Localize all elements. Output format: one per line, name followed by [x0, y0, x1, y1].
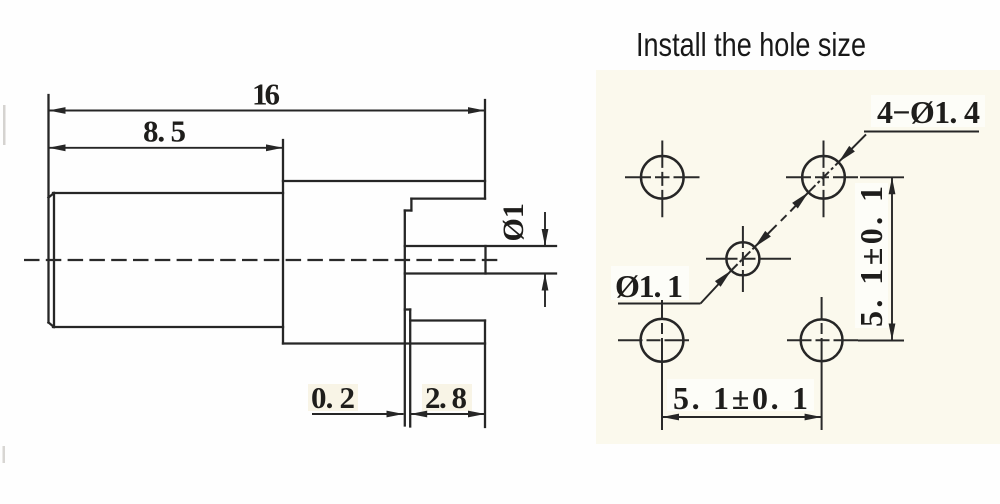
arrow at center hole upper-right: [755, 225, 777, 247]
svg-text:8. 5: 8. 5: [143, 114, 186, 149]
leader 4-O1.4 arrow: [839, 132, 979, 163]
dimension 16 line: [49, 107, 486, 114]
dim 2.8 right arrow: [468, 411, 485, 418]
svg-text:5. 1±0. 1: 5. 1±0. 1: [673, 380, 808, 416]
dim O1 upper arrow: [542, 229, 549, 246]
body right edge + extension line: [484, 100, 486, 199]
hole center circle: [726, 242, 759, 275]
svg-text:Install the hole size: Install the hole size: [636, 26, 866, 63]
dim 2.8 left arrow: [410, 411, 427, 418]
dim 16 left arrow: [49, 107, 66, 114]
leader 4-O1.4 underline: [864, 131, 979, 133]
dim 8.5 left arrow: [49, 144, 66, 151]
diagonal through center hole: [731, 247, 754, 270]
diagonal through top-right hole: [808, 162, 838, 192]
dimension 8.5 line: [49, 144, 284, 151]
bottom dim 5.1 line: [662, 414, 822, 421]
bottom dim right arrow: [805, 414, 822, 421]
white patch behind right 5.1 text: [855, 183, 888, 328]
leader O1.1 arrow: [715, 271, 731, 287]
right dim 5.1 line: [891, 177, 893, 340]
barrel bottom edge: [53, 326, 283, 328]
white patch behind O1.1: [611, 266, 689, 300]
leader O1.1 diagonal: [701, 271, 732, 304]
right dim top arrow: [889, 177, 896, 194]
hole top-left circle: [641, 156, 684, 199]
hole bottom-left circle: [641, 319, 684, 362]
barrel top chamfer: [49, 193, 55, 198]
svg-text:2. 8: 2. 8: [425, 380, 467, 415]
white patch behind bottom 5.1 text: [667, 379, 814, 411]
leader O1.1 underline: [618, 271, 731, 304]
flange top edge: [410, 319, 485, 321]
hole bottom-left crosshair: [618, 297, 689, 430]
arrow at top-right hole lower-left: [790, 192, 808, 211]
svg-text:5. 1±0. 1: 5. 1±0. 1: [853, 186, 889, 327]
barrel left inner edge: [53, 193, 55, 327]
notch step horizontal lower: [405, 209, 412, 211]
dim 8.5 right arrow: [266, 144, 283, 151]
body top edge: [283, 180, 485, 182]
right dim extension top: [858, 177, 904, 340]
svg-text:Ø1: Ø1: [497, 203, 530, 241]
leg left line: [404, 211, 406, 426]
notch step vertical: [410, 199, 412, 211]
right dim bottom arrow: [889, 324, 896, 341]
dimension O1 vertical line: [542, 212, 549, 307]
flange right edge: [484, 321, 486, 428]
cream patch behind 2.8: [422, 384, 472, 411]
bottom dim left arrow: [662, 414, 679, 421]
svg-text:4−Ø1. 4: 4−Ø1. 4: [877, 94, 980, 130]
notch step horizontal upper: [411, 197, 485, 199]
stray crop artifact left edge bottom: [3, 446, 6, 463]
stray crop artifact left edge top: [3, 105, 6, 145]
leg right line: [409, 310, 411, 427]
svg-text:Ø1. 1: Ø1. 1: [615, 268, 683, 304]
leg top hook: [405, 308, 410, 310]
right panel cream background: [596, 70, 1000, 444]
svg-text:16: 16: [252, 77, 280, 112]
hole top-right crosshair: [786, 141, 858, 218]
pin bottom edge: [405, 272, 556, 274]
dimension 0.2 line: [312, 411, 404, 418]
pin inner vertical: [484, 246, 486, 274]
hole bottom-right crosshair: [787, 297, 858, 430]
barrel top edge: [53, 192, 283, 194]
hole top-left crosshair: [625, 141, 700, 218]
dim O1 lower arrow: [542, 274, 549, 291]
cream patch behind 0.2: [308, 384, 358, 411]
barrel bottom chamfer: [49, 323, 55, 328]
hole top-right circle: [802, 156, 845, 199]
barrel left outer edge + extension line: [47, 95, 49, 323]
hole bottom-right circle: [801, 319, 843, 361]
centerline: [24, 259, 503, 261]
step vertical + extension line: [282, 140, 284, 344]
dim 16 right arrow: [468, 107, 485, 114]
svg-text:0. 2: 0. 2: [311, 380, 355, 415]
pin top edge: [405, 245, 556, 247]
right dim extension bottom: [858, 340, 904, 342]
hole center crosshair: [706, 226, 791, 292]
dimension 2.8 line: [410, 411, 485, 418]
dim 0.2 arrow: [387, 411, 404, 418]
diagonal mid dash: [781, 215, 787, 221]
body bottom edge: [283, 342, 485, 344]
white patch behind 4-O1.4: [871, 95, 985, 127]
